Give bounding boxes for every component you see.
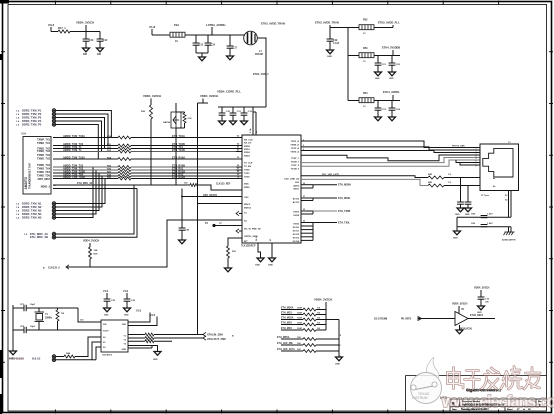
wire	[57, 308, 59, 310]
ground	[124, 308, 131, 312]
ferrite bead FB3	[359, 53, 374, 58]
capacitor C12	[97, 39, 104, 41]
svg-text:PH_REF2: PH_REF2	[401, 319, 412, 321]
wire bus	[53, 145, 118, 147]
wire	[62, 179, 105, 204]
svg-text:C13: C13	[199, 44, 204, 47]
wire	[444, 177, 480, 179]
wire	[176, 111, 185, 113]
svg-text:GND: GND	[375, 78, 380, 80]
wire	[377, 101, 379, 109]
buffer gate U5	[455, 312, 468, 326]
wire ETH_TX0L	[313, 222, 337, 224]
wire TRD4	[301, 158, 480, 163]
resistor R44	[64, 355, 75, 358]
svg-text:330: 330	[97, 53, 102, 56]
wire	[128, 334, 145, 336]
wire bus	[131, 148, 236, 150]
wire	[128, 340, 145, 342]
wire bus	[53, 169, 118, 171]
svg-text:Date:: Date:	[452, 408, 457, 411]
svg-text:C12: C12	[103, 39, 108, 42]
svg-text:ETH_MDC_3B: ETH_MDC_3B	[30, 235, 48, 239]
stub	[301, 222, 313, 224]
svg-text:RX_DV: RX_DV	[244, 142, 252, 144]
svg-text:10K: 10K	[297, 343, 301, 345]
resistor R29	[89, 247, 92, 259]
connector pin	[52, 212, 55, 215]
svg-text:ETH4_AVDDL: ETH4_AVDDL	[383, 90, 400, 94]
svg-text:24 25: 24 25	[255, 235, 258, 241]
wire	[316, 314, 326, 316]
stub	[301, 184, 313, 186]
connector pin	[52, 236, 55, 239]
svg-text:GND: GND	[122, 349, 127, 351]
wire	[92, 359, 96, 361]
wire	[252, 107, 254, 135]
svg-text:RXD2: RXD2	[244, 152, 251, 154]
svg-text:DDR3_TXM_P2: DDR3_TXM_P2	[22, 112, 42, 116]
wire	[85, 41, 87, 48]
wire bus	[131, 169, 236, 171]
capacitor C88	[481, 216, 488, 218]
svg-text:AMDD_TXM_TX2A: AMDD_TXM_TX2A	[63, 156, 85, 159]
wire	[391, 110, 393, 117]
wire	[26, 329, 39, 331]
svg-text:ETH_MD0H: ETH_MD0H	[338, 184, 351, 187]
svg-text:MDT_MDX: MDT_MDX	[38, 178, 51, 181]
pin stub	[236, 145, 242, 147]
wire	[460, 204, 462, 208]
wire	[175, 103, 177, 112]
test point P1	[212, 224, 215, 227]
resistor R41	[145, 333, 154, 336]
wire rail	[457, 216, 511, 218]
wire TRD7	[460, 163, 480, 166]
wire	[99, 32, 101, 40]
svg-text:DDR3_TXM_N5: DDR3_TXM_N5	[22, 216, 42, 220]
wire	[232, 107, 234, 113]
wire bus	[131, 175, 236, 177]
wire	[201, 53, 203, 57]
svg-text:VDD4_3V3CH: VDD4_3V3CH	[474, 287, 490, 290]
wire	[70, 31, 100, 33]
resistor R54	[303, 329, 316, 332]
svg-text:INSTRUM: INSTRUM	[412, 396, 428, 400]
ground	[257, 258, 264, 262]
wire bus	[131, 158, 236, 160]
wire	[56, 203, 62, 205]
net flag	[66, 265, 69, 269]
svg-text:LED_LINK_A2: LED_LINK_A2	[284, 177, 299, 180]
svg-text:100R: 100R	[297, 313, 302, 315]
TI logo watermark	[411, 357, 448, 404]
resistor R40	[56, 310, 59, 321]
wire	[221, 115, 223, 121]
svg-text:Document Number: Document Number	[462, 400, 480, 403]
svg-text:1M: 1M	[61, 313, 64, 315]
wire	[128, 346, 158, 352]
net flag	[203, 332, 206, 336]
capacitor C17	[227, 46, 234, 48]
wire	[480, 290, 482, 297]
wire	[57, 321, 59, 330]
wire	[185, 34, 245, 36]
svg-text:AVD1: AVD1	[293, 187, 299, 190]
wire	[56, 217, 62, 219]
capacitor C89	[481, 225, 488, 227]
stub	[239, 230, 242, 232]
ground	[375, 117, 382, 121]
svg-text:TX_EN: TX_EN	[244, 166, 251, 168]
wire	[65, 121, 102, 152]
svg-text:33: 33	[303, 221, 305, 223]
svg-text:1.8TRA_AVDDH: 1.8TRA_AVDDH	[206, 23, 226, 27]
wire bus	[53, 151, 118, 153]
wire	[56, 120, 65, 122]
pin stub	[236, 137, 242, 139]
capacitor C28	[179, 228, 186, 230]
pin stub	[236, 166, 242, 168]
capacitor C30	[219, 113, 226, 115]
svg-text:1.5kV: 1.5kV	[487, 214, 493, 216]
resistor R66	[428, 176, 444, 179]
wire	[50, 27, 52, 32]
wire	[391, 56, 393, 64]
wire	[65, 111, 111, 138]
wire ETH_TX0B	[313, 210, 337, 212]
net flag	[236, 229, 239, 233]
stub	[301, 239, 313, 241]
svg-text:TXMD_TX2: TXMD_TX2	[37, 150, 51, 153]
svg-text:RX_CLK: RX_CLK	[244, 139, 253, 141]
wire	[329, 41, 331, 50]
svg-text:ETH2_REF5: ETH2_REF5	[470, 315, 484, 317]
wire	[56, 342, 101, 360]
capacitor C31	[230, 113, 237, 115]
svg-text:CLK125_A: CLK125_A	[48, 266, 60, 269]
wire	[391, 101, 393, 109]
stub	[301, 187, 313, 189]
resistor R57	[303, 350, 316, 353]
svg-text:SVD5: SVD5	[293, 223, 299, 225]
svg-text:DDR3_TXM_P4: DDR3_TXM_P4	[22, 119, 42, 123]
svg-text:2: 2	[303, 145, 304, 147]
wire ETH_MDIO	[53, 188, 137, 190]
ground	[179, 240, 186, 244]
connector pin	[52, 123, 55, 126]
wire	[374, 27, 393, 29]
stub	[301, 197, 313, 199]
wire	[255, 112, 257, 135]
wire	[56, 210, 62, 212]
wire bus	[131, 172, 236, 174]
wire	[65, 118, 105, 149]
capacitor C32	[241, 113, 248, 115]
svg-text:VDD4_CORE_PLL: VDD4_CORE_PLL	[217, 90, 241, 94]
wire	[65, 114, 108, 146]
crystal Y1	[35, 312, 45, 322]
resistor R31	[227, 246, 230, 258]
wire	[128, 337, 145, 339]
pin stub	[236, 158, 242, 160]
svg-text:VDD4_3V3CH: VDD4_3V3CH	[83, 240, 99, 243]
wire	[12, 305, 14, 351]
pin stub	[236, 172, 242, 174]
wire	[392, 95, 394, 101]
capacitor C19	[327, 39, 334, 41]
wire	[459, 325, 461, 330]
wire	[243, 107, 245, 113]
wire ETH_MD0H	[313, 184, 337, 186]
wire	[207, 35, 209, 43]
wire	[271, 243, 273, 258]
wire	[460, 178, 462, 203]
svg-text:ETH_MDC_3A: ETH_MDC_3A	[77, 182, 93, 185]
wire	[195, 35, 197, 43]
svg-text:V1.8: V1.8	[150, 314, 156, 317]
svg-text:V1.8: V1.8	[123, 290, 129, 293]
svg-text:DDR3_TXM_N1: DDR3_TXM_N1	[22, 202, 42, 206]
svg-text:U14: U14	[22, 133, 27, 136]
wire	[56, 206, 62, 208]
wire	[126, 301, 128, 308]
svg-text:TXD1: TXD1	[244, 173, 250, 175]
wire TRD3	[301, 155, 480, 161]
ferrite bead FB4	[359, 98, 374, 103]
resistor R20	[118, 136, 131, 139]
svg-text:SS D3: SS D3	[293, 237, 300, 239]
svg-text:C17: C17	[233, 47, 238, 50]
wire	[329, 28, 331, 40]
wire	[184, 112, 186, 113]
stub	[301, 225, 313, 227]
svg-text:100R: 100R	[297, 308, 302, 310]
svg-text:RXD0: RXD0	[244, 146, 251, 148]
wire	[391, 65, 393, 72]
ground	[389, 117, 396, 121]
svg-text:Tuesday, March 23, 2010: Tuesday, March 23, 2010	[461, 408, 489, 411]
svg-text:32: 32	[303, 209, 305, 211]
resistor R51	[303, 313, 316, 316]
wire	[151, 346, 153, 349]
ground	[104, 308, 111, 312]
IC U2 magnetics/driver block	[23, 137, 51, 195]
svg-text:ETH2_AVDD_PLL: ETH2_AVDD_PLL	[378, 21, 400, 25]
wire	[62, 170, 96, 214]
wire TRD6	[456, 160, 480, 163]
svg-text:DDR3_TXM_P3: DDR3_TXM_P3	[22, 116, 42, 120]
wire	[51, 31, 58, 33]
svg-text:TXMD_TX3: TXMD_TX3	[37, 158, 51, 161]
net flag	[418, 317, 422, 321]
resistor R27	[118, 172, 131, 175]
wire	[106, 301, 108, 308]
wire	[468, 318, 495, 320]
svg-text:1.5kV: 1.5kV	[487, 223, 493, 225]
ground	[199, 57, 206, 61]
svg-text:AGND EARTH: AGND EARTH	[502, 239, 516, 242]
svg-text:GND: GND	[453, 238, 458, 240]
stub	[301, 232, 313, 234]
wire	[26, 307, 39, 309]
svg-text:3: 3	[303, 149, 304, 151]
wire TRD1	[301, 147, 480, 150]
connector pin	[52, 216, 55, 219]
svg-text:Gigabit Connectors: Gigabit Connectors	[466, 389, 501, 393]
svg-text:31: 31	[303, 196, 305, 198]
connector pin	[52, 112, 55, 115]
svg-text:AV D2: AV D2	[293, 197, 300, 200]
svg-text:TXMD_TX1: TXMD_TX1	[37, 142, 51, 145]
capacitor C15	[478, 297, 485, 299]
connector pin	[52, 209, 55, 212]
ground	[465, 208, 472, 212]
wire	[89, 243, 91, 247]
svg-text:DDR3_TXM_N3: DDR3_TXM_N3	[22, 209, 42, 213]
ground	[241, 121, 248, 125]
wire	[184, 123, 186, 128]
capacitor CF1	[24, 305, 26, 311]
wire	[316, 350, 339, 352]
resistor R22	[118, 147, 131, 150]
svg-text:ETH_MD0L: ETH_MD0L	[338, 197, 351, 200]
wire	[181, 230, 183, 240]
connector pin	[52, 109, 55, 112]
resistor R17	[58, 30, 70, 33]
wire	[154, 340, 172, 342]
svg-text:V1.8: V1.8	[149, 25, 156, 29]
svg-text:MDIO_3: MDIO_3	[41, 186, 51, 189]
wire	[458, 306, 460, 314]
ferrite bead FB2	[359, 25, 374, 30]
wire ETH_MDC	[53, 184, 190, 186]
wire MDIO riser	[56, 189, 137, 238]
wire	[377, 110, 379, 117]
svg-text:GND: GND	[124, 315, 129, 317]
wire bus	[131, 166, 236, 168]
frame shadow marks	[0, 0, 9, 4]
svg-text:VDD4_3V3CH: VDD4_3V3CH	[452, 303, 468, 306]
capacitor C35	[104, 299, 111, 301]
svg-text:25MHz: 25MHz	[45, 318, 53, 320]
svg-text:GND: GND	[389, 78, 394, 80]
svg-text:8: 8	[476, 166, 477, 168]
svg-text:GND: GND	[455, 214, 460, 216]
svg-text:4.7uF: 4.7uF	[333, 42, 340, 45]
wire	[38, 308, 40, 312]
wire	[228, 238, 242, 246]
svg-text:GND: GND	[465, 214, 470, 216]
wire	[508, 227, 510, 232]
svg-text:8.9.10: 8.9.10	[32, 356, 41, 360]
ground	[454, 231, 461, 235]
wire	[198, 102, 209, 104]
net flag	[236, 211, 239, 215]
wire bus	[131, 137, 236, 139]
svg-text:18pF: 18pF	[30, 326, 36, 328]
wire	[182, 196, 242, 198]
svg-text:ETH2_AVD_1: ETH2_AVD_1	[253, 73, 269, 76]
svg-text:FB4: FB4	[363, 92, 368, 95]
wire MDC riser	[56, 185, 134, 234]
svg-text:CDCE913: CDCE913	[102, 355, 113, 357]
resistor R28	[190, 184, 198, 187]
wire	[338, 320, 340, 358]
wire	[195, 45, 197, 53]
wire	[281, 324, 303, 326]
wire	[128, 317, 157, 326]
svg-text:VDD4_3V3CH: VDD4_3V3CH	[200, 94, 218, 98]
capacitor C21	[375, 63, 382, 65]
wire	[150, 99, 152, 106]
wire	[467, 204, 469, 208]
resistor R43	[145, 340, 154, 343]
wire	[229, 48, 231, 56]
wire	[175, 128, 177, 185]
resistor R67	[428, 184, 444, 187]
resistor R50	[303, 308, 316, 311]
ground	[327, 50, 334, 54]
wire CLK125_REF	[198, 185, 242, 190]
resistor R53	[303, 323, 316, 326]
wire	[85, 32, 87, 40]
wire	[89, 259, 91, 267]
wire	[243, 115, 245, 121]
connector pin	[52, 205, 55, 208]
wire bus	[53, 172, 118, 174]
svg-text:SS D2: SS D2	[293, 234, 300, 236]
wire ETH_MD0L	[313, 197, 337, 199]
svg-text:C10: C10	[89, 39, 94, 42]
svg-text:J1 Tyco: J1 Tyco	[481, 195, 490, 197]
wire CLK125	[66, 220, 242, 267]
svg-text:MDIO: MDIO	[244, 187, 250, 189]
wire xtal feed	[197, 103, 199, 335]
svg-text:V1.8: V1.8	[103, 290, 109, 293]
wire bus	[53, 137, 118, 139]
wire	[325, 302, 327, 330]
svg-text:TX0M_A: TX0M_A	[290, 143, 299, 146]
wire	[281, 319, 303, 321]
resistor R25	[118, 166, 131, 169]
svg-text:GND: GND	[335, 364, 340, 366]
svg-text:GND: GND	[477, 312, 482, 314]
wire	[316, 329, 326, 331]
ground	[478, 306, 485, 310]
svg-text:FB2: FB2	[363, 19, 368, 22]
wire	[377, 65, 379, 72]
wire	[13, 307, 24, 309]
wire	[126, 293, 128, 299]
wire rail	[457, 226, 511, 228]
connector pin	[52, 202, 55, 205]
wire bracket	[312, 223, 314, 227]
wire	[244, 34, 245, 36]
ground	[336, 357, 343, 361]
ground	[456, 330, 463, 334]
ground	[225, 268, 232, 272]
svg-text:GND: GND	[327, 56, 332, 58]
wire TRD5	[301, 160, 480, 166]
pin stub	[236, 178, 242, 180]
wire	[176, 127, 185, 129]
wire	[96, 347, 101, 360]
wire	[316, 324, 326, 326]
svg-text:VDD: VDD	[122, 324, 127, 326]
connector pin	[52, 232, 55, 235]
svg-text:2/3 S RGMII: 2/3 S RGMII	[374, 318, 387, 321]
